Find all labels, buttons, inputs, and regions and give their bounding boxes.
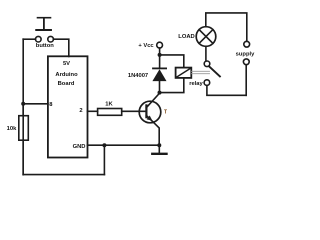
ground symbol xyxy=(152,145,166,154)
relay contact pole xyxy=(204,61,210,67)
wire branch to relay top xyxy=(160,55,184,68)
svg-text:GND: GND xyxy=(73,144,86,150)
svg-text:LOAD: LOAD xyxy=(178,34,194,40)
wire bottom rail xyxy=(23,174,104,176)
wire pin2 to R2 xyxy=(88,110,98,112)
svg-text:+ Vcc: + Vcc xyxy=(138,43,154,49)
Arduino board U1 xyxy=(48,56,88,157)
wire button left to left rail xyxy=(23,38,35,40)
relay K1 coil xyxy=(176,68,192,78)
junction node GND/riser xyxy=(102,143,106,147)
wire contact throw down xyxy=(207,86,246,96)
terminal +Vcc xyxy=(157,42,163,48)
diode D1 1N4007 xyxy=(152,68,166,92)
wire relay bottom to junction xyxy=(160,78,184,93)
relay contact arm xyxy=(209,66,220,76)
svg-text:button: button xyxy=(36,43,54,49)
svg-text:supply: supply xyxy=(236,52,255,58)
junction node diode/collector xyxy=(158,91,162,95)
wire R2 to base xyxy=(122,110,147,112)
resistor R1 10k xyxy=(19,104,29,175)
wire riser to GND net xyxy=(103,145,105,174)
lamp LOAD xyxy=(196,27,216,47)
pushbutton S1 plunger xyxy=(36,18,51,30)
terminal supply bottom xyxy=(243,59,249,65)
svg-text:5V: 5V xyxy=(63,61,70,67)
wire supply to bottom rail xyxy=(245,65,247,96)
svg-text:Board: Board xyxy=(58,81,75,87)
svg-text:T: T xyxy=(164,109,167,115)
svg-text:10k: 10k xyxy=(7,126,17,132)
relay mechanical link xyxy=(192,71,210,73)
relay contact throw xyxy=(204,80,210,86)
wire button right to 5V pin xyxy=(54,39,69,56)
wire lamp to contact pole xyxy=(205,46,207,61)
wire Vcc down xyxy=(159,48,161,68)
svg-text:2: 2 xyxy=(79,108,82,114)
pushbutton contact right xyxy=(48,36,54,42)
wire pin8 xyxy=(23,103,48,105)
svg-text:Arduino: Arduino xyxy=(55,72,78,78)
terminal supply top xyxy=(244,41,250,47)
pushbutton contact left xyxy=(36,36,42,42)
svg-text:1N4007: 1N4007 xyxy=(128,73,148,79)
wire left rail vertical xyxy=(22,39,24,174)
junction node Vcc/relay branch xyxy=(158,53,162,57)
svg-text:1K: 1K xyxy=(105,102,113,108)
resistor R2 1K xyxy=(98,109,122,116)
svg-text:relay: relay xyxy=(189,81,203,87)
junction node GND/emitter xyxy=(157,143,161,147)
junction node pin8/left rail xyxy=(21,102,25,106)
wire GND net xyxy=(88,144,160,146)
transistor Q1 xyxy=(139,93,161,145)
wire lamp top rail xyxy=(206,13,247,41)
